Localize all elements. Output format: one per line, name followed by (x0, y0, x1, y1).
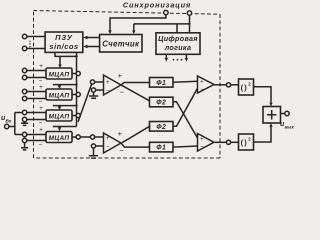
block МЦАП 4 (46, 132, 72, 143)
block Ф2 upper (150, 97, 174, 107)
svg-text:вых: вых (285, 125, 295, 130)
wire counter to ROM upper (83, 36, 100, 39)
output terminal uВых (280, 111, 294, 129)
wire sync2 to digital logic (177, 15, 190, 33)
ellipsis dots (173, 59, 183, 61)
svg-text:логика: логика (164, 43, 192, 52)
svg-text:Синхронизация: Синхронизация (123, 1, 191, 10)
svg-text:+: + (39, 84, 43, 91)
svg-text:МЦАП: МЦАП (49, 92, 70, 99)
arrow into DAC1 (58, 56, 61, 68)
wire Ф2 lower to A3 (crossing) (173, 88, 198, 126)
wire A3 to squarer1 (214, 83, 239, 87)
block Ф1 bottom (150, 142, 174, 152)
op-amp A1 (104, 75, 122, 95)
svg-text:−: − (106, 145, 110, 151)
block МЦАП 3 (46, 110, 72, 121)
terminal A1 in+ (90, 80, 103, 84)
arrow digital logic out 2 (185, 54, 188, 62)
svg-text:+: + (200, 137, 204, 143)
junction (75, 55, 78, 58)
svg-text:Ф1: Ф1 (156, 145, 166, 152)
op-amp A3 (198, 76, 215, 93)
svg-text:+: + (118, 129, 123, 138)
terminal DAC4 out (72, 135, 80, 139)
terminal DAC2 in+ (22, 84, 46, 94)
wire A1 out+ to Ф1 (118, 71, 150, 85)
ground DAC3 (21, 122, 28, 126)
terminal DAC3 out (72, 113, 80, 117)
terminal A1 in- (91, 88, 103, 92)
svg-text:+: + (39, 127, 43, 134)
wire A1 out- to Ф2 (120, 85, 150, 101)
block Счетчик (100, 35, 142, 53)
svg-text:+: + (106, 80, 110, 86)
dots between ROM inputs (29, 41, 30, 48)
block МЦАП 1 (46, 68, 72, 79)
wire Ф2 upper to A4 (crossing) (173, 102, 198, 138)
wire squarer1 to summer (254, 87, 273, 107)
ground A2 (89, 148, 98, 158)
tap to DAC2 (53, 83, 78, 89)
svg-text:+: + (39, 63, 43, 70)
terminal DAC2 in- (22, 96, 46, 105)
wire squarer2 to summer (254, 123, 273, 142)
op-amp A4 (198, 134, 215, 152)
svg-text:Ф1: Ф1 (156, 80, 166, 87)
terminal sync1 (164, 10, 168, 14)
terminal DAC2 out (72, 92, 80, 96)
terminal DAC1 in- (22, 75, 46, 84)
wire A2 out+ to Ф2 (118, 126, 150, 142)
svg-text:−: − (120, 88, 125, 97)
wire A4 to squarer2 (214, 140, 239, 144)
terminal sync2 (187, 11, 191, 15)
svg-text:−: − (119, 146, 124, 155)
terminal DAC3 in+ (22, 105, 46, 115)
block ПЗУ sin/cos (45, 32, 83, 52)
svg-text:(): () (241, 138, 248, 147)
block summer + (263, 107, 281, 124)
tap to DAC3 (53, 104, 78, 110)
junction (188, 23, 190, 25)
svg-text:−: − (200, 144, 204, 150)
svg-text:−: − (39, 120, 43, 127)
terminal DAC4 in- (22, 138, 46, 148)
terminal ROM input 2 (22, 46, 45, 50)
wire sync1 to counter (110, 15, 166, 31)
svg-text:МЦАП: МЦАП (49, 113, 70, 120)
wire Ф1 bottom to A4 (173, 146, 198, 147)
terminal A2 in+ (90, 135, 103, 139)
terminal A2 in- (91, 144, 103, 148)
svg-text:−: − (106, 89, 110, 95)
block МЦАП 2 (46, 89, 72, 100)
terminal DAC3 in- (22, 117, 46, 126)
block Ф2 lower (150, 122, 174, 132)
ground DAC4 (21, 143, 28, 150)
svg-text:sin/cos: sin/cos (49, 42, 78, 51)
svg-text:+: + (39, 105, 43, 112)
wire counter to ROM lower (83, 45, 100, 48)
terminal DAC4 in+ (22, 127, 46, 137)
svg-text:(): () (241, 83, 248, 92)
op-amp A2 (104, 133, 122, 153)
svg-text:Ф2: Ф2 (156, 100, 166, 107)
arrow digital logic out 1 (165, 54, 168, 62)
block Ф1 top (150, 78, 174, 88)
block squarer2 ()² (239, 134, 254, 150)
svg-text:Вх: Вх (6, 119, 12, 124)
svg-text:+: + (200, 79, 204, 85)
svg-text:МЦАП: МЦАП (49, 71, 70, 78)
wire uВх to DAC3/DAC4 (9, 113, 23, 135)
wire DAC4 to A2 (80, 136, 90, 138)
wire Ф1 top to A3 (173, 81, 198, 82)
terminal DAC1 out (72, 71, 80, 75)
svg-text:−: − (200, 87, 204, 93)
input terminal uВх (1, 115, 12, 129)
wire sync bus y24 (134, 24, 190, 31)
wire ROM outputs to bus (55, 52, 77, 56)
terminal ROM input 1 (22, 34, 45, 38)
ground A1 (89, 92, 98, 98)
terminal DAC1 in+ (22, 63, 46, 73)
svg-text:+: + (118, 71, 123, 80)
svg-text:Цифровая: Цифровая (158, 34, 198, 43)
bus vertical (76, 56, 78, 126)
switch arm DAC3 to opamp A1 (78, 84, 92, 122)
svg-text:Ф2: Ф2 (156, 124, 166, 131)
svg-text:ПЗУ: ПЗУ (55, 33, 73, 42)
block Цифровая логика (156, 33, 200, 55)
wire A2 out- to Ф1 (119, 143, 149, 155)
svg-text:МЦАП: МЦАП (49, 135, 70, 142)
block squarer1 ()² (239, 79, 254, 95)
svg-text:+: + (106, 136, 110, 142)
dashed enclosure border (34, 11, 221, 159)
svg-text:Счетчик: Счетчик (102, 40, 140, 49)
svg-text:−: − (39, 142, 43, 149)
tap to DAC4 (53, 127, 77, 132)
